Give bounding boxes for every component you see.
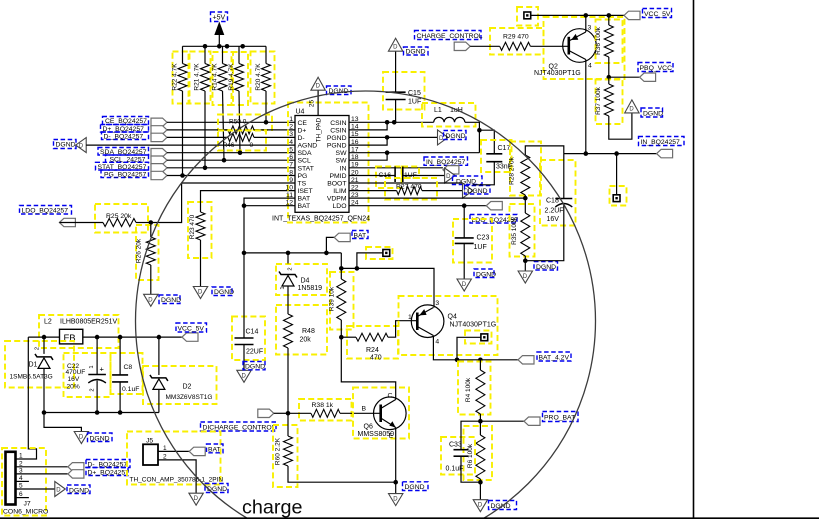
wire SCL row (167, 159, 295, 161)
resistor R48 (276, 305, 327, 355)
terminal pad (BAT bus) (366, 247, 393, 259)
wire VBUS down to J7 pin1 (16, 337, 37, 459)
node +5V taps (203, 44, 208, 49)
svg-text:R48: R48 (302, 328, 315, 335)
svg-text:C: C (388, 393, 393, 400)
net PRO_BAT (480, 420, 524, 422)
net D+_BQ24257 (101, 125, 149, 133)
ground DGND (PMID/C16) (445, 168, 456, 183)
svg-text:AGND: AGND (298, 143, 318, 150)
svg-text:3: 3 (588, 25, 592, 32)
svg-text:1SMB6.5AT3G: 1SMB6.5AT3G (10, 374, 53, 381)
power symbol +5V (211, 12, 228, 22)
svg-text:8: 8 (289, 169, 293, 176)
wire battery bus2 (341, 268, 434, 307)
wire R14 to SCL net (223, 91, 225, 160)
svg-text:C17: C17 (498, 145, 511, 152)
svg-text:D: D (198, 290, 203, 296)
resistor R60 (273, 425, 298, 487)
ground DGND (C23) (457, 279, 471, 291)
svg-text:PG: PG (298, 173, 308, 180)
svg-text:IN: IN (340, 165, 347, 172)
resistor R25 (95, 204, 148, 233)
node TS divider (149, 220, 154, 225)
ground DGND (R6/C33) (473, 500, 487, 512)
net CE_BQ24257 (103, 117, 149, 125)
resistor R26 (136, 225, 159, 280)
net D-_BQ24257 (102, 132, 149, 140)
svg-text:BAT: BAT (354, 232, 367, 239)
svg-text:2: 2 (35, 347, 41, 350)
capacitor C17 (481, 140, 512, 172)
wire SDA row (167, 152, 295, 154)
resistor R28 (510, 142, 541, 196)
svg-text:DGND: DGND (405, 484, 425, 491)
svg-text:1: 1 (89, 365, 95, 368)
svg-text:0.1uF: 0.1uF (122, 386, 139, 393)
net VCC_5V (left) (182, 333, 198, 341)
svg-text:1N5819: 1N5819 (298, 285, 323, 292)
svg-text:DGND: DGND (69, 487, 89, 494)
resistor R29 (490, 28, 544, 55)
svg-text:R28 270k: R28 270k (509, 156, 516, 185)
svg-text:PMID: PMID (330, 173, 347, 180)
svg-text:20%: 20% (67, 383, 80, 390)
svg-text:D: D (462, 282, 467, 288)
svg-text:1: 1 (280, 286, 286, 289)
svg-text:4: 4 (435, 339, 439, 346)
sheet frame right border (693, 0, 695, 518)
svg-text:R14 4.7K: R14 4.7K (212, 63, 219, 91)
svg-text:D: D (446, 174, 451, 180)
svg-text:C8: C8 (124, 364, 133, 371)
svg-text:D: D (79, 435, 84, 441)
svg-text:MMSS8050: MMSS8050 (358, 431, 395, 438)
net BAT (J5 pin1) (158, 450, 189, 452)
resistor R50 (0 ohm) on D+ row (218, 115, 272, 131)
svg-text:20k: 20k (300, 337, 312, 344)
inductor L2 ILHB0805ER251V ferrite bead FB (39, 315, 119, 348)
wire bus1 to bus2 (340, 253, 342, 269)
wire AGND row (86, 144, 295, 146)
highlight circle annotation (136, 91, 596, 519)
wire PGND row 16 (349, 137, 387, 145)
resistor R37 (596, 80, 623, 125)
svg-text:BAT: BAT (208, 446, 221, 453)
svg-text:25: 25 (309, 100, 316, 108)
transistor Q4 NJT4030PT1G (399, 296, 498, 355)
svg-text:BAT: BAT (298, 196, 311, 203)
svg-text:16V: 16V (547, 216, 560, 223)
ground DGND (R37) (625, 100, 639, 113)
inductor L1 (422, 103, 476, 127)
wire +5V bus (183, 45, 267, 47)
svg-text:L2: L2 (44, 319, 52, 326)
svg-text:R50 0: R50 0 (229, 119, 247, 126)
ground DGND (Q6 emitter) (389, 494, 403, 506)
svg-text:TS: TS (298, 181, 307, 188)
svg-text:1UF: 1UF (474, 244, 487, 251)
capacitor C14 (232, 317, 265, 361)
svg-text:3: 3 (289, 131, 293, 138)
svg-text:D: D (316, 84, 321, 90)
svg-text:22UF: 22UF (246, 349, 263, 356)
svg-text:DGND: DGND (643, 111, 663, 118)
svg-text:VCC_5V: VCC_5V (178, 326, 205, 333)
svg-text:R24: R24 (366, 347, 379, 354)
transistor Q2 NJT4030PT1G (544, 17, 625, 79)
svg-text:D2: D2 (183, 384, 192, 391)
svg-text:DICHARGE_CONTROL: DICHARGE_CONTROL (203, 425, 276, 432)
svg-text:CON6_MICRO: CON6_MICRO (3, 509, 48, 516)
net LDO_BQ24257 (left) (20, 206, 72, 215)
wire R20 to CE net (265, 91, 267, 122)
svg-text:7: 7 (289, 162, 293, 169)
wire battery bus1 (244, 252, 341, 254)
svg-text:R4 100k: R4 100k (465, 377, 472, 402)
svg-text:J7: J7 (24, 501, 31, 508)
svg-text:D1: D1 (29, 362, 38, 369)
svg-text:2.2UF: 2.2UF (545, 207, 564, 214)
svg-text:D: D (56, 488, 61, 494)
net D-_BQ24257 (J7 pin2) (16, 466, 68, 468)
resistor R46 (0 ohm) on D- row (218, 131, 266, 151)
net LDO_BQ24257 (pin 24) (349, 205, 486, 207)
svg-text:R38 1k: R38 1k (312, 402, 334, 409)
svg-text:Q6: Q6 (364, 424, 373, 431)
svg-text:PGND: PGND (327, 143, 347, 150)
transistor Q6 MMSS8050 (353, 388, 409, 439)
resistor R22 (173, 52, 189, 104)
diode D2 MM3Z6V8ST1G (143, 366, 217, 404)
ground DGND (J5 pin2) (158, 460, 196, 493)
svg-text:2: 2 (90, 388, 96, 391)
svg-text:D: D (629, 106, 634, 112)
node PRO_BAT junction (478, 419, 483, 424)
svg-text:VDPM: VDPM (327, 196, 347, 203)
svg-text:D: D (439, 136, 444, 142)
svg-text:D: D (79, 144, 84, 150)
svg-text:BAT_4.2V: BAT_4.2V (539, 354, 570, 361)
net VCC_5V (top) (624, 11, 640, 19)
wire BAT pins 11,12 (244, 198, 295, 206)
wire SW row 18 (349, 153, 387, 161)
svg-text:D: D (523, 274, 528, 280)
svg-text:D: D (194, 496, 199, 502)
resistor R19 (232, 52, 249, 105)
svg-text:IN_BQ24257: IN_BQ24257 (641, 139, 681, 146)
svg-text:470: 470 (370, 354, 382, 361)
terminal pad (Q4) (465, 331, 492, 344)
svg-text:R39 10k: R39 10k (329, 286, 336, 311)
resistor R38 (299, 399, 352, 421)
svg-text:6: 6 (289, 154, 293, 161)
op-amp U4 TEXAS_BQ24257_QFN24 (288, 103, 369, 223)
node PBQ junction (607, 75, 612, 80)
svg-text:R60 2.2K: R60 2.2K (275, 437, 282, 465)
wire Q2 emitter to VCC bus (585, 15, 587, 32)
svg-text:10: 10 (285, 184, 293, 191)
ground DGND (TH_PAD pin 25) (317, 90, 319, 115)
svg-text:D: D (148, 297, 153, 303)
svg-text:D4: D4 (301, 278, 310, 285)
svg-text:R20 4.7K: R20 4.7K (255, 63, 262, 91)
resistor R39 (330, 272, 354, 330)
wire PG row (167, 175, 295, 177)
svg-text:ILHB0805ER251V: ILHB0805ER251V (60, 319, 118, 326)
wire bottom-left ground bus (44, 412, 159, 414)
svg-text:DGND: DGND (56, 142, 76, 149)
svg-text:1: 1 (408, 314, 412, 321)
svg-text:BOOT: BOOT (327, 181, 346, 188)
ground DGND (above C15) (388, 38, 402, 51)
svg-text:5: 5 (289, 147, 293, 154)
net IN_BQ24257 (right) (657, 149, 673, 157)
capacitor C33 (441, 437, 475, 475)
wire TS row (151, 183, 295, 223)
wire VDPM row 23 (349, 197, 525, 199)
svg-text:D: D (242, 373, 247, 379)
capacitor C15 (383, 72, 425, 110)
net BAT_4.2V (518, 356, 534, 364)
node DICHARGE junction (286, 411, 291, 416)
svg-text:LDO: LDO (333, 203, 347, 210)
net SDA_BQ24257 (98, 148, 149, 156)
wire SW row 17 (349, 152, 479, 154)
ground DGND (ILIM/R27) (463, 183, 474, 198)
ground DGND (bottom-left bus) (44, 413, 81, 432)
net SCL_24257 (106, 155, 149, 162)
svg-text:DGND: DGND (446, 133, 466, 140)
wire BOOT row 21 (349, 182, 463, 184)
ground DGND (R35) (518, 271, 532, 283)
svg-text:SW: SW (336, 150, 348, 157)
svg-text:STAT: STAT (298, 165, 314, 172)
wire R22 to PG net (182, 91, 184, 176)
svg-text:2: 2 (288, 267, 294, 270)
diode D4 1N5819 (276, 264, 327, 295)
wire CE row (167, 121, 295, 123)
svg-text:D+_BQ24257: D+_BQ24257 (88, 470, 130, 477)
svg-text:VCC_5V: VCC_5V (644, 11, 671, 18)
node VDPM junction (523, 196, 528, 201)
svg-text:SCL: SCL (298, 158, 311, 165)
resistor R6 (464, 426, 493, 480)
terminal pad (VCC_5V) (517, 7, 538, 26)
resistor R14 (213, 52, 234, 105)
net IN_BQ24257 (pin 19) (424, 157, 468, 165)
svg-text:R36 100k: R36 100k (595, 26, 602, 55)
net D+_BQ24257 (J7 pin3) (16, 473, 68, 475)
svg-text:DGND: DGND (207, 486, 227, 493)
wire CSIN row 13 (349, 121, 434, 123)
svg-text:R29 470: R29 470 (503, 34, 529, 41)
svg-text:L1: L1 (434, 107, 442, 114)
svg-text:CE: CE (298, 120, 308, 127)
net PG_BQ24257 (101, 170, 149, 178)
svg-text:DGND: DGND (214, 289, 234, 296)
svg-text:PGND: PGND (327, 135, 347, 142)
ground DGND (PGND) (438, 130, 449, 145)
wire Q6 collector (341, 337, 395, 399)
ground DGND (J7 pin5) (16, 488, 55, 490)
net PBQ_VCC (609, 76, 640, 78)
svg-text:CSIN: CSIN (330, 127, 346, 134)
svg-text:DGND: DGND (476, 271, 496, 278)
svg-text:C23: C23 (477, 235, 490, 242)
svg-text:CHARGE_CONTROL: CHARGE_CONTROL (417, 33, 483, 40)
svg-text:C14: C14 (246, 329, 259, 336)
ground DGND (R23) (193, 287, 207, 299)
svg-text:C33: C33 (449, 442, 462, 449)
resistor R36 (596, 20, 623, 64)
svg-text:D-: D- (298, 135, 305, 142)
svg-text:470UF: 470UF (66, 369, 86, 376)
diode D1 1SMB6.5AT3G (5, 341, 74, 388)
svg-text:Q4: Q4 (448, 314, 457, 321)
svg-text:U4: U4 (296, 109, 305, 116)
resistor R35 (510, 204, 535, 257)
wire STAT row (167, 167, 295, 169)
svg-text:ISET: ISET (298, 188, 313, 195)
capacitor C23 (453, 219, 492, 263)
svg-text:MM3Z6V8ST1G: MM3Z6V8ST1G (166, 394, 213, 401)
svg-text:+: + (100, 365, 105, 374)
capacitor C22 470UF 16V 20% (64, 353, 111, 397)
svg-text:1: 1 (19, 453, 23, 460)
capacitor C18 2.2UF 16V (540, 160, 576, 226)
svg-text:R26 20k: R26 20k (136, 238, 143, 263)
svg-text:B: B (362, 406, 367, 413)
svg-text:R19 4.7K: R19 4.7K (228, 63, 235, 91)
svg-text:+5V: +5V (213, 15, 226, 22)
svg-text:NJT4030PT1G: NJT4030PT1G (450, 321, 497, 328)
svg-text:D: D (393, 45, 398, 51)
wire R19 to SDA net (239, 91, 240, 153)
svg-text:D-_BQ24257: D-_BQ24257 (104, 134, 144, 141)
svg-text:DGND: DGND (161, 297, 181, 304)
svg-text:16V: 16V (68, 376, 80, 383)
svg-text:9: 9 (289, 177, 293, 184)
resistor R23 (188, 202, 212, 258)
svg-text:DGND: DGND (245, 364, 265, 371)
resistor R24 (347, 326, 398, 359)
svg-text:ILIM: ILIM (333, 188, 347, 195)
svg-text:4: 4 (289, 139, 293, 146)
wire Q6 emitter (395, 428, 397, 494)
svg-text:1: 1 (289, 116, 293, 123)
svg-text:CSIN: CSIN (330, 120, 346, 127)
wire CSIN row 14 (349, 122, 387, 130)
ground DGND (R26) (144, 294, 158, 306)
svg-text:BAT: BAT (298, 203, 311, 210)
svg-text:J5: J5 (146, 438, 153, 445)
resistor R27 (385, 178, 437, 200)
svg-text:TH_PAD: TH_PAD (316, 117, 323, 142)
wire Q4 emitter to BAT_4.2V (433, 336, 518, 360)
wire SW node to snubber (479, 130, 494, 153)
svg-text:DGND: DGND (406, 49, 426, 56)
net DICHARGE_CONTROL (258, 409, 274, 417)
svg-text:TH_CON_AMP_350786-1_2PIN: TH_CON_AMP_350786-1_2PIN (130, 477, 224, 484)
capacitor C16 (376, 167, 402, 189)
svg-text:R23 470: R23 470 (189, 214, 196, 239)
svg-text:DGND: DGND (90, 435, 110, 442)
svg-text:PRO_BAT: PRO_BAT (544, 414, 575, 421)
net CHARGE_CONTROL (415, 31, 482, 40)
svg-text:R22 4.7K: R22 4.7K (172, 63, 179, 91)
svg-text:PG_BQ24257: PG_BQ24257 (104, 172, 147, 179)
svg-text:INT_TEXAS_BQ24257_QFN24: INT_TEXAS_BQ24257_QFN24 (272, 215, 370, 222)
net BAT (mid) (326, 237, 334, 253)
svg-text:R35 100k: R35 100k (511, 216, 518, 245)
svg-text:DGND: DGND (491, 503, 511, 510)
wire R21 to STAT net (204, 91, 206, 168)
svg-text:D+: D+ (298, 127, 307, 134)
svg-text:1UF: 1UF (408, 99, 421, 106)
resistor R20 (251, 52, 275, 104)
svg-text:NJT4030PT1G: NJT4030PT1G (534, 70, 581, 77)
resistor R21 (190, 52, 211, 104)
svg-text:DGND: DGND (536, 264, 556, 271)
svg-text:4: 4 (588, 63, 592, 70)
wire IN bus (564, 153, 657, 155)
svg-text:IN_BQ24257: IN_BQ24257 (426, 159, 466, 166)
svg-text:DGND: DGND (468, 188, 488, 195)
capacitor C8 0.1uF (111, 353, 143, 394)
svg-text:D: D (478, 503, 483, 509)
terminal pad (IN bus) (610, 186, 627, 206)
svg-text:SDA: SDA (298, 150, 312, 157)
svg-text:PBQ_VCC: PBQ_VCC (640, 65, 673, 72)
sheet frame bottom border (0, 517, 819, 519)
net STAT_BQ24257 (96, 162, 149, 170)
svg-text:LDO_BQ24257: LDO_BQ24257 (22, 208, 69, 215)
svg-text:2: 2 (289, 124, 293, 131)
ground DGND (AGND row) (54, 140, 77, 149)
resistor R4 (458, 362, 491, 415)
svg-text:3: 3 (435, 300, 439, 307)
svg-text:R37 100k: R37 100k (595, 86, 602, 115)
ground DGND (C14) (237, 370, 251, 382)
svg-text:SW: SW (336, 158, 348, 165)
svg-text:charge: charge (242, 497, 302, 519)
svg-text:R21 4.7K: R21 4.7K (194, 63, 201, 91)
connector J7 CON6_MICRO (2, 448, 46, 516)
wire Q2 collector down (585, 60, 587, 154)
wire PGND row 15 (349, 136, 438, 138)
connector J5 TH_CON_AMP_350786-1_2PIN (127, 432, 221, 485)
node R39/R24 junction (339, 335, 344, 340)
svg-text:D: D (393, 497, 398, 503)
